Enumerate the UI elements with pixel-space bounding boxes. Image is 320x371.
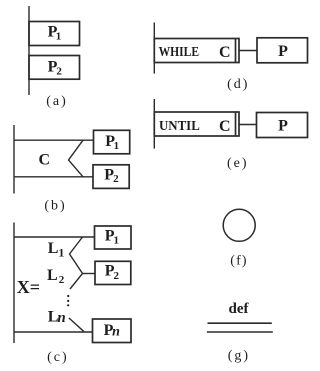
svg-text:2: 2 (113, 173, 119, 185)
svg-text:(e): (e) (227, 156, 249, 171)
svg-text:(d): (d) (227, 77, 249, 92)
svg-text:(c): (c) (47, 350, 69, 365)
svg-text:WHILE: WHILE (159, 45, 200, 60)
svg-text:C: C (219, 44, 231, 61)
svg-text:C: C (39, 152, 51, 169)
svg-text:n: n (57, 310, 65, 326)
svg-text:1: 1 (56, 31, 62, 43)
svg-text:2: 2 (56, 66, 62, 78)
svg-text:(a): (a) (46, 94, 68, 109)
svg-text:P: P (278, 117, 288, 134)
svg-text:def: def (229, 301, 250, 317)
svg-text:(g): (g) (228, 349, 250, 364)
svg-text:(b): (b) (44, 198, 66, 213)
svg-text:L: L (48, 240, 59, 257)
svg-text:1: 1 (114, 235, 120, 247)
svg-text:1: 1 (114, 140, 120, 152)
svg-text:n: n (112, 324, 120, 339)
svg-text:C: C (219, 118, 231, 135)
svg-text:2: 2 (114, 270, 120, 282)
svg-text:UNTIL: UNTIL (159, 119, 200, 134)
svg-text:L: L (47, 267, 58, 284)
svg-text:2: 2 (59, 274, 65, 286)
svg-text:1: 1 (58, 245, 64, 259)
svg-text:X=: X= (17, 277, 40, 297)
svg-text:P: P (278, 43, 288, 60)
svg-text:(f): (f) (230, 254, 248, 269)
